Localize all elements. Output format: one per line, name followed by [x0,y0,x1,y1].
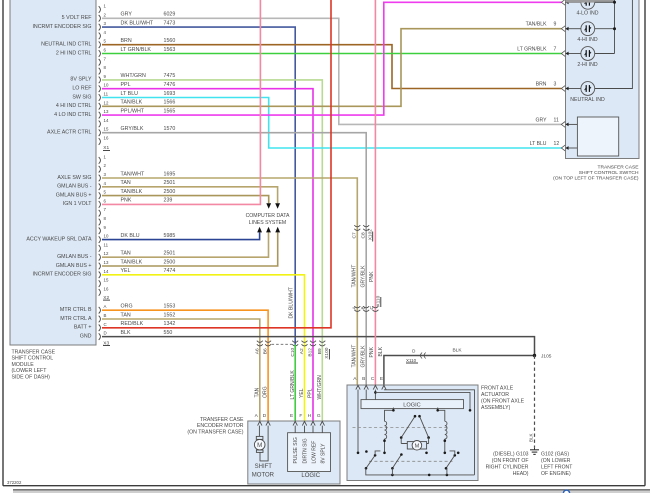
wire LT BLU 1693 [102,98,561,149]
svg-text:12: 12 [554,141,560,147]
actuator motor M [401,443,428,445]
svg-text:GRY: GRY [536,117,548,123]
indicator lamp 4-HI IND [581,22,595,36]
wire BLK 550 [102,337,535,356]
svg-text:TAN/BLK: TAN/BLK [121,189,143,195]
svg-text:GRY: GRY [121,12,133,18]
svg-text:F: F [299,413,302,419]
svg-text:2 HI IND CTRL: 2 HI IND CTRL [56,50,92,56]
svg-text:13: 13 [104,109,109,114]
svg-text:11: 11 [554,117,559,123]
arrow to data lines (pin 5) [266,203,271,209]
svg-text:TAN: TAN [121,312,131,318]
bottom scroll knob [563,490,569,493]
svg-text:(ON FRONT OF: (ON FRONT OF [492,458,529,464]
svg-text:ASSEMBLY): ASSEMBLY) [481,405,511,411]
svg-text:GMLAN BUS +: GMLAN BUS + [56,192,92,198]
wire LT GRN/BLK 1563 [102,53,561,55]
dashed BLK ground drop [534,356,536,448]
svg-text:9: 9 [554,22,557,28]
svg-text:INCRMT ENCODER SIG: INCRMT ENCODER SIG [32,24,91,30]
svg-text:GMLAN BUS -: GMLAN BUS - [57,254,92,260]
wire RED/BLK 1342 [102,0,331,328]
svg-text:MODULE: MODULE [12,362,35,368]
svg-text:14: 14 [104,118,109,123]
svg-text:LOW REF: LOW REF [311,441,317,464]
wire PNK 239 [102,0,260,204]
svg-text:LO REF: LO REF [72,86,92,92]
svg-text:1570: 1570 [164,126,176,132]
svg-text:DK BLU/WHT: DK BLU/WHT [289,287,295,318]
actuator box pin arrows [356,385,360,389]
svg-text:GMLAN BUS +: GMLAN BUS + [56,263,92,269]
svg-text:E: E [380,376,383,382]
connector X100 dashes [272,343,293,345]
svg-text:BRN: BRN [536,82,547,88]
svg-text:TRANSFER CASE: TRANSFER CASE [200,417,244,423]
svg-text:A6: A6 [254,348,260,354]
svg-text:TAN/WHT: TAN/WHT [351,265,357,288]
svg-text:1560: 1560 [164,38,176,44]
svg-text:COMPUTER DATA: COMPUTER DATA [246,213,290,219]
svg-text:4-LO IND: 4-LO IND [577,11,599,17]
svg-text:LT GRN/BLK: LT GRN/BLK [517,47,547,53]
actuator right coil [438,408,445,422]
svg-text:6029: 6029 [164,12,176,18]
wire TAN/BLK 2500 (pin 5) [102,196,269,204]
svg-text:5 VOLT REF: 5 VOLT REF [62,15,93,21]
svg-text:8V SPLY: 8V SPLY [320,443,326,464]
svg-text:1565: 1565 [164,108,176,114]
svg-text:GRY/BLK: GRY/BLK [360,265,366,288]
arrow to data lines (pin 4) [275,203,280,209]
svg-text:1693: 1693 [164,91,176,97]
page left border [2,0,4,486]
switch pin GRY 11 [561,122,565,128]
svg-text:4 HI IND CTRL: 4 HI IND CTRL [56,103,92,109]
svg-text:2500: 2500 [164,259,176,265]
svg-text:BRN: BRN [121,38,132,44]
svg-text:7474: 7474 [164,268,176,274]
encoder logic box [288,433,331,472]
svg-text:E: E [290,413,293,419]
svg-text:LT BLU: LT BLU [121,91,139,97]
svg-text:ORG: ORG [263,386,269,398]
svg-text:(ON FRONT AXLE: (ON FRONT AXLE [481,399,525,405]
svg-text:ORG: ORG [121,304,133,310]
svg-text:MTR CTRL B: MTR CTRL B [60,307,92,313]
svg-text:C: C [104,322,107,327]
page bottom border [3,485,645,487]
svg-text:C: C [371,376,375,382]
svg-text:7473: 7473 [164,20,176,26]
mode switch block [577,117,618,156]
inline connector X110 pin A [354,306,360,308]
actuator wire C internal [374,390,376,400]
svg-text:PPL: PPL [121,82,131,88]
indicator lamp 2-HI IND [581,47,595,61]
svg-text:1553: 1553 [164,304,176,310]
svg-text:(ON LOWER: (ON LOWER [541,458,571,464]
svg-text:TAN/BLK: TAN/BLK [121,100,143,106]
svg-text:BATT +: BATT + [74,325,92,331]
transfer case shift control switch box [566,0,640,159]
svg-text:PPL: PPL [308,388,314,398]
svg-text:C7: C7 [351,232,357,238]
svg-text:DIRTN SIG: DIRTN SIG [302,438,308,463]
actuator dashed line upper [353,426,448,428]
svg-text:4-HI IND: 4-HI IND [577,37,597,43]
wire TAN 1552 [102,319,260,421]
transfer case encoder motor box [248,421,340,484]
svg-text:DK BLU/WHT: DK BLU/WHT [121,20,154,26]
actuator switch links [375,451,380,455]
svg-text:TAN/WHT: TAN/WHT [121,171,145,177]
wire PPL 7476 [102,89,313,421]
svg-text:A: A [104,304,107,309]
svg-text:RIGHT CYLINDER: RIGHT CYLINDER [486,465,529,471]
svg-text:IGN 1 VOLT: IGN 1 VOLT [63,201,93,207]
inline connector X110 pin B [363,306,369,308]
inline connector X100 pins [257,341,263,343]
indicator lamp NEUTRAL IND [581,82,595,96]
svg-text:2501: 2501 [164,251,176,257]
svg-text:BLK: BLK [378,346,384,356]
svg-text:AXLE SW SIG: AXLE SW SIG [57,175,91,181]
svg-text:PNK: PNK [369,271,375,282]
svg-text:2500: 2500 [164,189,176,195]
svg-text:GMLAN BUS -: GMLAN BUS - [57,184,92,190]
svg-text:1342: 1342 [164,321,176,327]
svg-text:B: B [104,313,107,318]
svg-text:BLK: BLK [121,330,131,336]
svg-text:1552: 1552 [164,312,176,318]
wire WHT/GRN 7475 [102,80,322,421]
svg-text:GRY/BLK: GRY/BLK [360,345,366,368]
svg-text:GND: GND [80,333,92,339]
actuator left coil [385,408,394,422]
wire DK BLU 5985 [102,232,260,239]
svg-text:10: 10 [104,83,109,88]
svg-text:550: 550 [164,330,173,336]
svg-text:B9: B9 [317,348,323,354]
svg-text:C8: C8 [360,232,366,238]
ground symbol G102/G103 [534,448,536,450]
logic input leads [294,426,296,433]
svg-text:B: B [362,376,365,382]
svg-text:SIDE OF DASH): SIDE OF DASH) [12,374,51,380]
svg-text:GRY/BLK: GRY/BLK [121,126,144,132]
front axle actuator box [347,385,478,481]
actuator wire A internal [357,390,359,453]
svg-text:(DIESEL) G103: (DIESEL) G103 [493,452,529,458]
actuator switch blades [366,455,375,468]
cut-off element at box top (gray band) [566,0,615,3]
svg-text:1695: 1695 [164,171,176,177]
svg-text:372202: 372202 [7,480,22,485]
svg-text:TAN/BLK: TAN/BLK [526,22,547,28]
svg-text:1563: 1563 [164,47,176,53]
actuator wire E internal [384,390,475,475]
svg-text:2501: 2501 [164,180,176,186]
wire BLK actuator ground [384,356,535,385]
svg-text:(LOWER LEFT: (LOWER LEFT [12,368,48,374]
wire YEL 7474 [102,275,305,421]
svg-text:ACTUATOR: ACTUATOR [481,392,509,398]
inline connector X110 pin D [420,353,422,359]
wire TAN 2501 (pin 4) [102,187,278,203]
wire GRY/BLK 1570 [102,133,366,385]
wire BRN 1560 [102,45,561,89]
svg-text:5985: 5985 [164,233,176,239]
actuator dashed line lower [369,460,453,462]
svg-text:RED/BLK: RED/BLK [121,321,144,327]
svg-text:TRANSFER CASE: TRANSFER CASE [597,165,639,171]
svg-text:MTR CTRL A: MTR CTRL A [60,316,92,322]
svg-text:4 LO IND CTRL: 4 LO IND CTRL [54,112,91,118]
actuator logic box [361,400,464,409]
svg-text:ENCODER MOTOR: ENCODER MOTOR [197,423,244,429]
wire TAN/BLK 1566 [102,29,561,107]
actuator motor triangle [401,416,415,437]
svg-text:BLK: BLK [528,433,533,442]
svg-text:15: 15 [104,278,109,283]
actuator bottom bus [366,468,475,475]
svg-text:13: 13 [104,260,109,265]
svg-text:B12: B12 [308,348,314,357]
svg-text:10: 10 [104,234,109,239]
module connector X1 pins 1-16 [99,157,101,164]
svg-text:OF ENGINE): OF ENGINE) [541,471,571,477]
svg-text:(ON TRANSFER CASE): (ON TRANSFER CASE) [187,429,243,435]
svg-text:H: H [308,413,312,419]
wire PPL/WHT 1565 [102,2,561,115]
svg-text:NEUTRAL IND: NEUTRAL IND [570,97,605,103]
svg-text:14: 14 [104,269,109,274]
arrow from data lines (pin 13) [275,227,280,233]
svg-text:SHIFT: SHIFT [255,464,273,470]
encoder box pin arrows [258,421,262,425]
svg-text:G: G [317,413,321,419]
svg-text:TAN: TAN [121,251,131,257]
svg-text:PNK: PNK [369,346,375,357]
svg-text:J105: J105 [541,354,552,360]
bottom ui bar [13,490,650,493]
arrow from data lines (pin 12) [266,227,271,233]
svg-text:YEL: YEL [121,268,131,274]
svg-text:HEAD): HEAD) [513,471,529,477]
svg-text:16: 16 [104,136,109,141]
switch internal bus 4LO/4HI/2HI [595,0,615,54]
svg-text:X110: X110 [406,358,417,363]
svg-text:12: 12 [104,100,109,105]
svg-text:A2: A2 [299,348,305,354]
svg-text:MOTOR: MOTOR [252,472,275,478]
svg-text:LOGIC: LOGIC [403,402,420,408]
svg-text:WHT/GRN: WHT/GRN [121,73,146,79]
svg-text:TAN: TAN [121,180,131,186]
svg-text:YEL: YEL [299,388,305,398]
actuator wire B internal [365,390,367,400]
wire LT GRN/BLK to encoder [294,345,296,421]
svg-text:TAN/BLK: TAN/BLK [121,259,143,265]
svg-text:SW SIG: SW SIG [72,94,91,100]
svg-text:15: 15 [104,127,109,132]
wire ORG 1553 [102,310,268,421]
inline connector X102 pin C7 [354,225,360,227]
svg-text:3: 3 [554,82,557,88]
svg-text:TRANSFER CASE: TRANSFER CASE [12,350,56,356]
indicator lamp 4-LO IND [581,0,595,9]
svg-text:11: 11 [104,242,109,247]
shift motor M [258,426,260,437]
wire GRY 6029 [102,18,561,124]
wire TAN/WHT 1695 [102,178,357,385]
svg-text:7: 7 [554,47,557,53]
svg-text:FRONT AXLE: FRONT AXLE [481,386,514,392]
wire DK BLU/WHT 7473 [102,27,295,345]
svg-text:1566: 1566 [164,100,176,106]
svg-text:ACCY WAKEUP SRL DATA: ACCY WAKEUP SRL DATA [26,236,92,242]
wire PNK (front axle feed) [374,0,376,385]
svg-text:BLK: BLK [452,348,462,354]
switch internal bus neutral [595,0,633,89]
svg-text:NEUTRAL IND CTRL: NEUTRAL IND CTRL [41,42,91,48]
switch pin LT BLU 12 [561,145,565,151]
svg-text:SHIFT CONTROL SWITCH: SHIFT CONTROL SWITCH [579,170,639,176]
svg-text:LT GRN/BLK: LT GRN/BLK [290,370,296,400]
svg-text:LT BLU: LT BLU [530,141,547,147]
svg-text:LINES SYSTEM: LINES SYSTEM [249,220,286,226]
svg-text:G102 (GAS): G102 (GAS) [541,452,569,458]
svg-text:INCRMT ENCODER SIG: INCRMT ENCODER SIG [32,272,91,278]
svg-text:LT GRN/BLK: LT GRN/BLK [121,47,152,53]
svg-text:TAN/WHT: TAN/WHT [351,345,357,368]
svg-text:TAN: TAN [254,387,260,397]
svg-text:M: M [257,442,262,449]
svg-text:SHIFT CONTROL: SHIFT CONTROL [12,356,54,362]
svg-text:PNK: PNK [121,198,132,204]
svg-text:239: 239 [164,198,173,204]
module connector pins 1-16 [99,6,101,13]
page right border [644,0,646,486]
svg-text:LEFT FRONT: LEFT FRONT [541,465,572,471]
svg-text:11: 11 [104,92,109,97]
svg-text:7475: 7475 [164,73,176,79]
svg-text:8V SPLY: 8V SPLY [70,77,92,83]
svg-text:PPL/WHT: PPL/WHT [121,108,145,114]
svg-text:12: 12 [104,251,109,256]
inline connector X102 pin C8 [363,225,369,227]
wire TAN/BLK 2500 (pin 13) [102,232,278,266]
svg-text:WHT/GRN: WHT/GRN [317,375,323,400]
wire TAN 2501 (pin 12) [102,232,269,257]
svg-text:D: D [104,331,107,336]
svg-text:DK BLU: DK BLU [121,233,140,239]
arrow from data lines (pin 10) [257,227,262,233]
svg-text:B6: B6 [263,348,269,354]
svg-text:LOGIC: LOGIC [301,473,320,479]
transfer case shift control module box [10,0,96,345]
module connector X2 pins A-D [99,307,101,314]
svg-text:M: M [415,443,420,449]
svg-text:16: 16 [104,286,109,291]
inline connector X110 pin C [372,306,378,308]
svg-text:AXLE ACTR CTRL: AXLE ACTR CTRL [47,130,92,136]
svg-text:7476: 7476 [164,82,176,88]
svg-text:(ON TOP LEFT OF TRANSFER CASE): (ON TOP LEFT OF TRANSFER CASE) [553,175,639,181]
svg-text:2-HI IND: 2-HI IND [577,62,597,68]
svg-text:D: D [263,413,267,419]
svg-text:PULSE SIG: PULSE SIG [293,437,299,464]
junction J105 [533,354,536,357]
